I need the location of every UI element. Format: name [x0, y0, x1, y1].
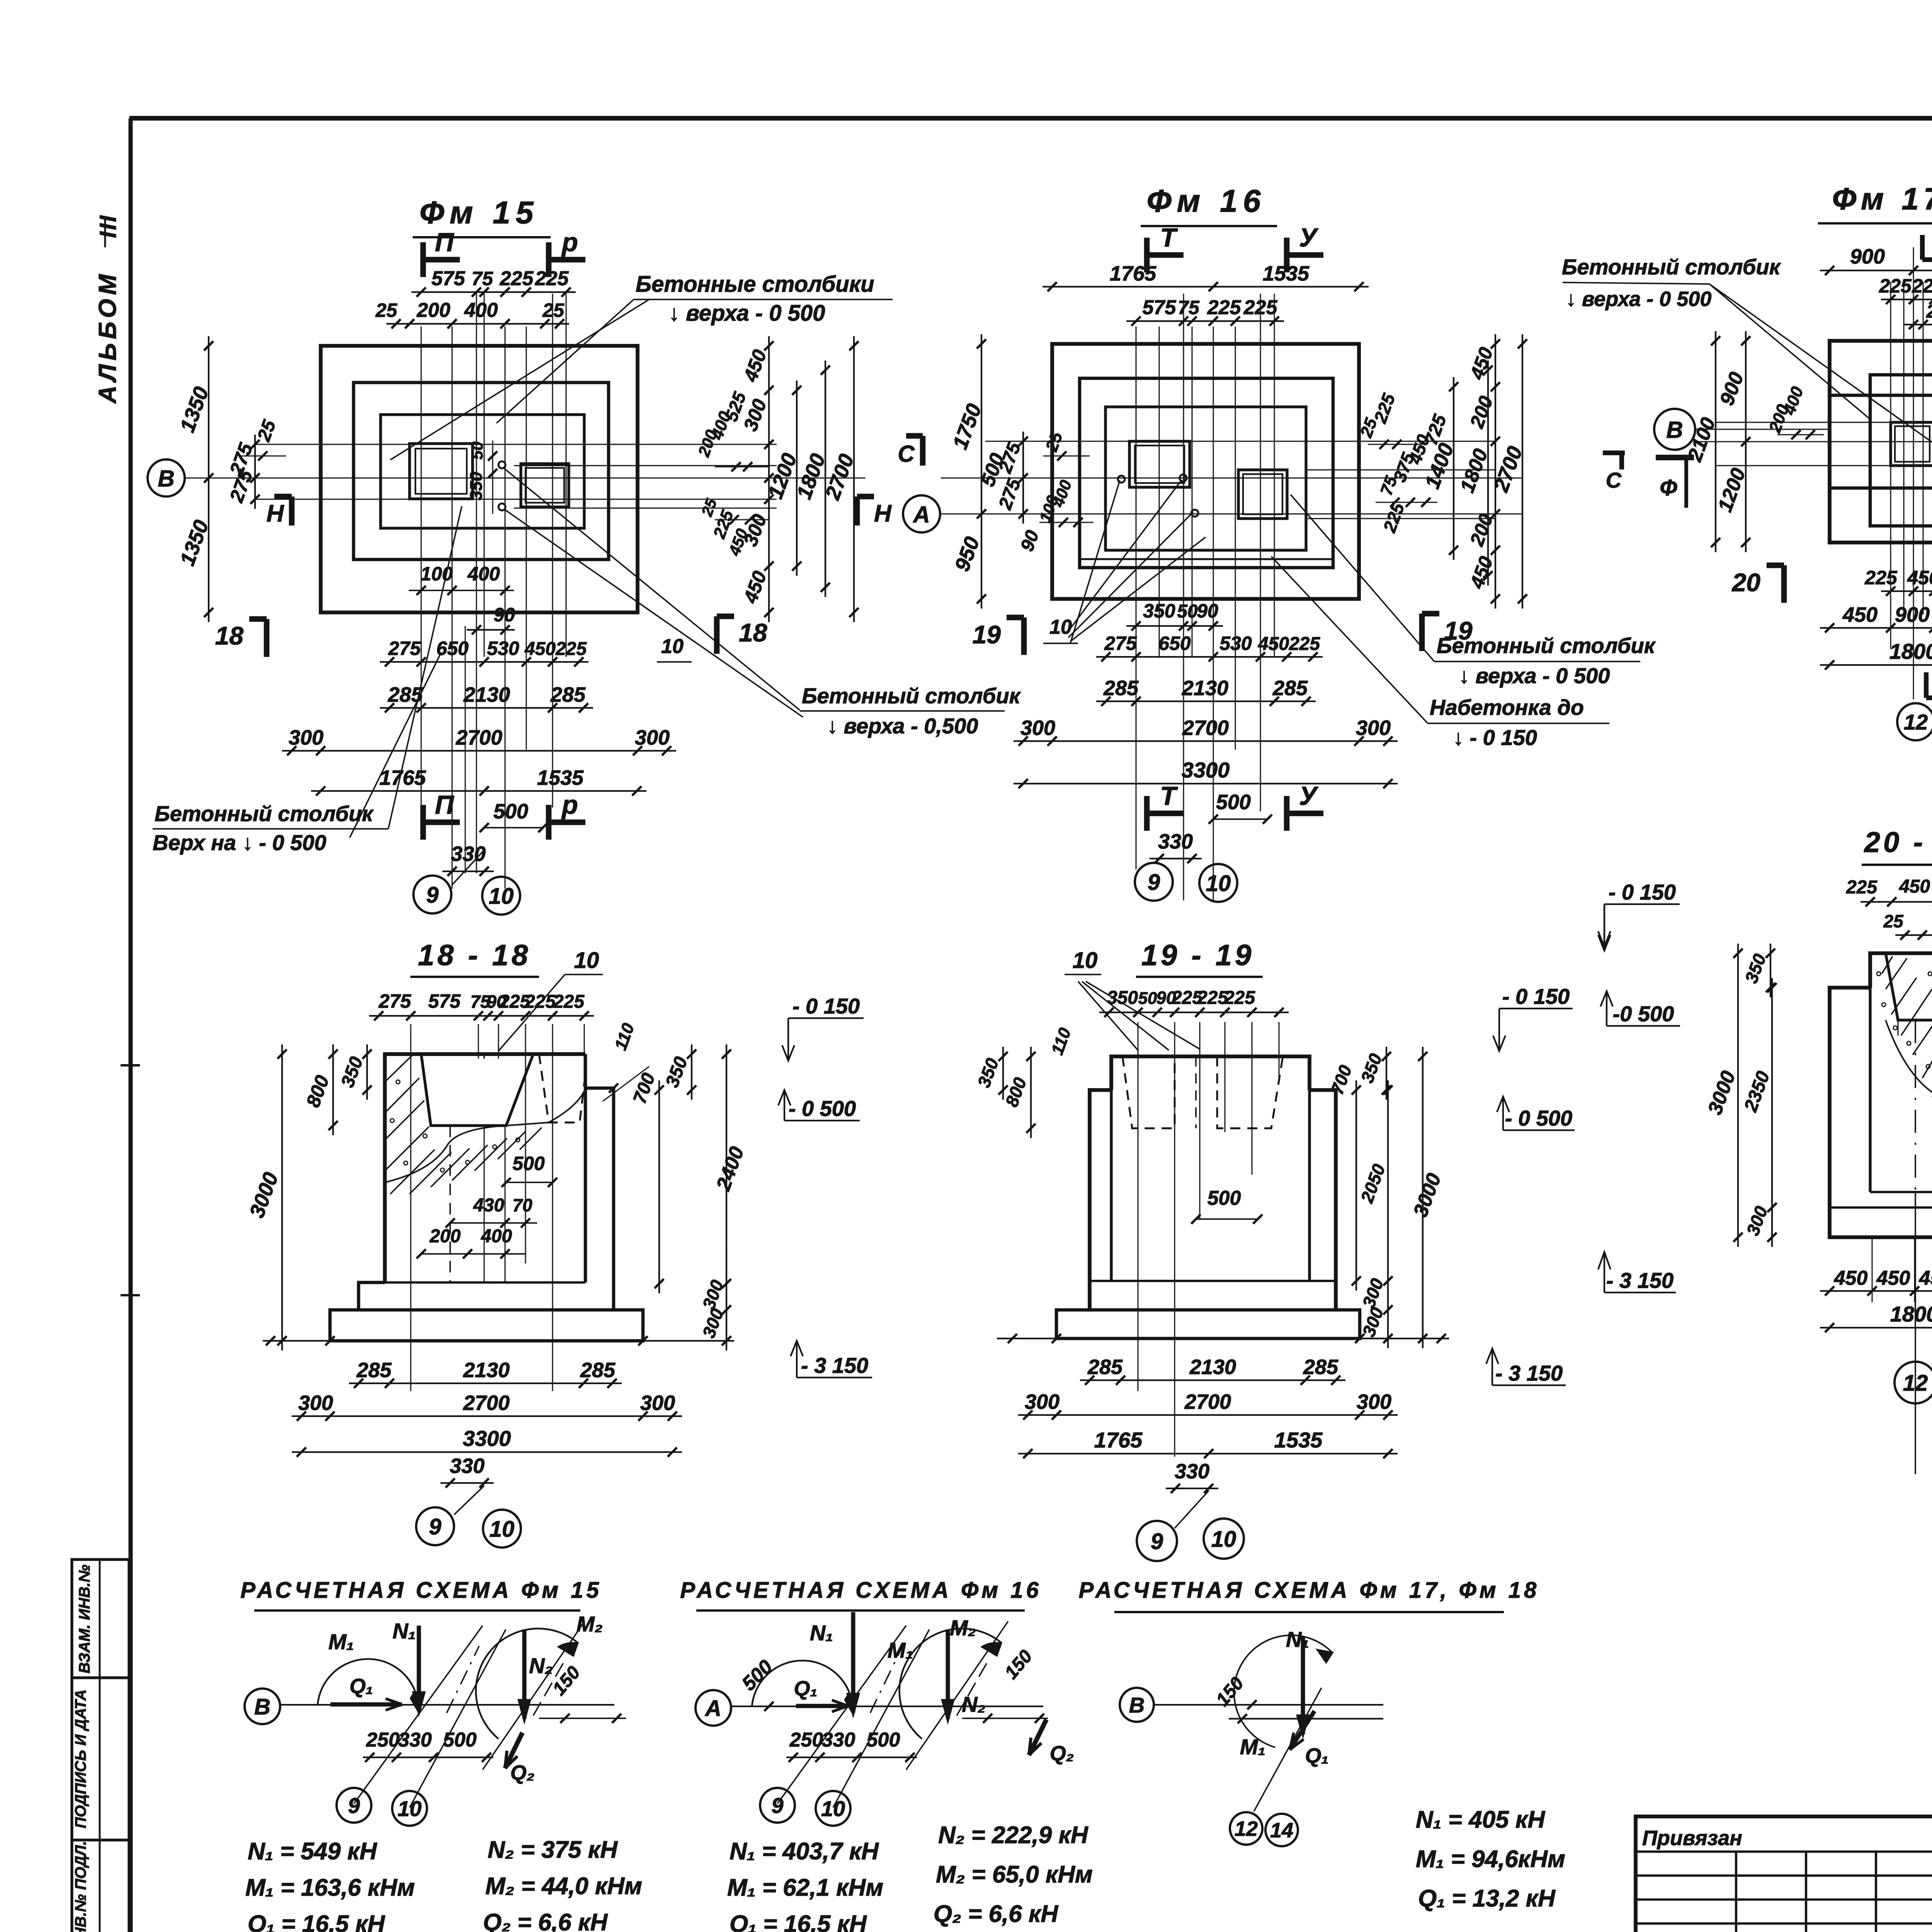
plan FM16 foundation pad outer: [1052, 344, 1359, 599]
plan FM17 column glass: [1891, 422, 1932, 466]
svg-text:10: 10: [574, 948, 599, 973]
svg-text:А: А: [912, 502, 930, 527]
svg-text:Т: Т: [1160, 781, 1178, 811]
svg-text:N₂: N₂: [529, 1653, 553, 1678]
svg-text:300: 300: [1357, 1390, 1391, 1413]
plan FM17 X mark bottom: [1924, 672, 1929, 698]
svg-text:500: 500: [443, 1729, 477, 1751]
svg-text:25: 25: [542, 299, 565, 321]
svg-text:N₁ = 549 кН: N₁ = 549 кН: [248, 1838, 377, 1865]
plan FM16 bottom dim 300 2700 300: [1014, 740, 1398, 742]
svg-text:20 - 20: 20 - 20: [1864, 826, 1932, 858]
section 19-19 pedestal body: [1111, 1056, 1310, 1090]
section 18-18 top dims: [369, 1015, 594, 1017]
section 18-18 bottom dims: [349, 1383, 622, 1384]
svg-text:50: 50: [1138, 989, 1157, 1008]
svg-text:18: 18: [215, 621, 244, 650]
svg-text:↓ верха - 0 500: ↓ верха - 0 500: [1566, 287, 1711, 311]
svg-text:Ф: Ф: [1660, 475, 1677, 500]
section 19-19 hidden cups dashed: [1122, 1056, 1175, 1128]
svg-text:В: В: [1666, 417, 1683, 443]
svg-text:9: 9: [1148, 870, 1160, 895]
section 18-18 hatch zone curve: [385, 1088, 585, 1182]
section 19-19 extension verticals: [1138, 1022, 1139, 1391]
section 19-19 step line: [1090, 1280, 1336, 1282]
svg-text:200: 200: [429, 1226, 461, 1247]
section 19-19 right dims: [1355, 1080, 1357, 1291]
svg-text:Q₂: Q₂: [1050, 1742, 1074, 1765]
svg-text:Q₁: Q₁: [794, 1677, 817, 1700]
svg-text:225: 225: [1879, 275, 1912, 297]
plan FM16 axis circle A: [903, 495, 940, 532]
svg-text:- 0 150: - 0 150: [793, 994, 860, 1018]
svg-text:275: 275: [388, 638, 421, 659]
svg-text:19: 19: [973, 620, 1001, 649]
svg-text:2700: 2700: [1182, 716, 1229, 740]
svg-text:575: 575: [432, 267, 466, 290]
section 19-19 ground line: [997, 1338, 1449, 1339]
svg-text:Фм 16: Фм 16: [1147, 184, 1266, 219]
plan FM17 cross thick lines: [1830, 394, 1932, 397]
svg-text:225: 225: [1243, 296, 1278, 319]
svg-text:50: 50: [468, 442, 486, 460]
svg-text:М₁ = 94,6кНм: М₁ = 94,6кНм: [1416, 1846, 1565, 1872]
svg-text:350: 350: [1143, 600, 1175, 622]
svg-text:1765: 1765: [1094, 1428, 1143, 1452]
scheme FM17-18 leader diagonal: [1254, 1688, 1321, 1811]
svg-text:90: 90: [1197, 600, 1218, 622]
svg-text:- 0 500: - 0 500: [1505, 1106, 1572, 1130]
svg-text:Q₁: Q₁: [1305, 1744, 1328, 1767]
plan FM16 horizontal extension lines: [985, 441, 1495, 442]
plan FM16 pedestal top: [1105, 407, 1306, 550]
svg-text:1535: 1535: [537, 766, 584, 789]
svg-text:225: 225: [555, 639, 587, 659]
plan FM16 bottom section marks T U: [1144, 796, 1150, 831]
svg-text:12: 12: [1903, 1371, 1928, 1396]
section 18-18 step1: [359, 1282, 385, 1310]
svg-text:450: 450: [1258, 634, 1289, 654]
svg-text:Q₂: Q₂: [510, 1761, 535, 1784]
svg-text:N₁: N₁: [810, 1621, 833, 1645]
plan FM15 vertical extension lines: [421, 327, 422, 808]
svg-text:2130: 2130: [463, 683, 510, 706]
section 18-18 ground line: [263, 1340, 734, 1342]
svg-text:575: 575: [428, 990, 461, 1012]
section 19-19 circles 9 10: [1137, 1521, 1177, 1561]
svg-text:650: 650: [436, 638, 469, 659]
svg-text:285: 285: [1303, 1355, 1338, 1379]
plan FM15 bottom dim row 285 2130 285: [380, 707, 593, 709]
svg-text:300: 300: [635, 726, 670, 749]
svg-text:14: 14: [1270, 1819, 1293, 1842]
svg-text:575: 575: [1143, 296, 1177, 319]
scheme FM16 axis circle A: [696, 1690, 731, 1726]
section 19-19 bottom dims: [1080, 1379, 1345, 1381]
svg-text:3300: 3300: [1182, 758, 1230, 782]
svg-text:Q₁: Q₁: [349, 1675, 373, 1698]
plan FM15 bottom dim 330: [442, 871, 494, 872]
plan FM16 top dim 575 75 225 225: [1126, 320, 1284, 322]
svg-text:М₂: М₂: [950, 1616, 976, 1640]
svg-text:М₁: М₁: [1240, 1735, 1265, 1759]
svg-text:М₁ = 62,1 кНм: М₁ = 62,1 кНм: [727, 1874, 883, 1901]
section 20-20 left dims: [1770, 944, 1771, 997]
scheme FM16 axis diagonals: [777, 1626, 906, 1804]
svg-text:75: 75: [471, 268, 493, 289]
plan FM16 column glass right: [1238, 470, 1287, 519]
plan FM15 top dim row 25 200 400 25: [386, 323, 569, 325]
plan FM17 left dims: [1745, 331, 1747, 552]
svg-text:200: 200: [417, 299, 451, 321]
svg-text:У: У: [1299, 223, 1319, 252]
plan FM15 foundation pad outer: [321, 346, 638, 612]
svg-text:2130: 2130: [1189, 1355, 1236, 1379]
plan FM15 pedestal top: [381, 415, 584, 528]
svg-text:10: 10: [398, 1796, 422, 1821]
svg-text:Q₁ = 16,5 кН: Q₁ = 16,5 кН: [730, 1911, 867, 1932]
plan FM17 extension lines: [1890, 282, 1891, 649]
plan FM16 bottom dim 330: [1150, 858, 1202, 859]
section 19-19 collar ledges: [1090, 1090, 1111, 1310]
svg-text:450: 450: [1919, 1267, 1932, 1289]
svg-text:430: 430: [473, 1195, 504, 1216]
svg-text:2130: 2130: [463, 1359, 510, 1382]
svg-text:25: 25: [375, 299, 398, 321]
svg-text:275: 275: [1104, 633, 1137, 654]
svg-text:Q₁ = 13,2 кН: Q₁ = 13,2 кН: [1418, 1885, 1556, 1912]
svg-text:330: 330: [822, 1729, 855, 1751]
section 20-20 hatch + dots: [1886, 958, 1907, 989]
svg-text:Бетонный столбик: Бетонный столбик: [802, 684, 1021, 708]
svg-text:1765: 1765: [1110, 262, 1156, 285]
svg-text:1535: 1535: [1263, 262, 1310, 285]
plan FM16 bottom dim 285 2130 285: [1096, 701, 1316, 702]
svg-text:450: 450: [1899, 876, 1930, 897]
svg-text:1765: 1765: [379, 766, 426, 789]
svg-text:ВЗАМ. ИНВ.№: ВЗАМ. ИНВ.№: [76, 1565, 93, 1673]
svg-text:285: 285: [356, 1359, 392, 1382]
svg-text:- 0 150: - 0 150: [1609, 880, 1676, 904]
svg-text:М₁: М₁: [328, 1629, 354, 1654]
plan FM16 middle step: [1080, 378, 1333, 568]
svg-text:Фм 17: Фм 17: [1832, 182, 1932, 216]
svg-text:400: 400: [464, 299, 498, 321]
svg-text:650: 650: [1158, 633, 1191, 654]
plan FM17 top dims: [1820, 270, 1932, 271]
svg-text:450: 450: [1834, 1267, 1868, 1289]
svg-text:70: 70: [512, 1195, 532, 1215]
svg-text:↓ - 0 150: ↓ - 0 150: [1453, 725, 1537, 750]
section 20-20 bottom dims: [1820, 1290, 1932, 1292]
plan FM15 right dim 1200 1800 2700: [796, 381, 798, 576]
scheme FM15 dim 250 330 500: [363, 1757, 493, 1758]
svg-text:225: 225: [553, 992, 585, 1012]
svg-text:2700: 2700: [1184, 1390, 1231, 1413]
plan FM16 inner horizontal line (nabetonka): [1080, 558, 1333, 560]
svg-text:- 3 150: - 3 150: [801, 1353, 868, 1378]
svg-text:↓ верха - 0,500: ↓ верха - 0,500: [827, 714, 978, 738]
svg-text:П: П: [435, 790, 455, 820]
svg-text:10: 10: [821, 1796, 845, 1821]
svg-text:С: С: [898, 441, 915, 467]
plan FM16 vertical extension lines: [1136, 327, 1137, 869]
plan FM15 left dims 275 25: [254, 435, 256, 509]
svg-text:225: 225: [1864, 567, 1898, 588]
plan FM16 19 section marks: [1021, 617, 1027, 655]
svg-text:225: 225: [1289, 634, 1320, 654]
svg-text:285: 285: [1272, 677, 1308, 700]
svg-text:9: 9: [771, 1793, 783, 1818]
svg-text:9: 9: [429, 1514, 441, 1539]
svg-text:р: р: [561, 790, 578, 820]
plan FM15 concrete post dots: [498, 461, 505, 468]
svg-text:П: П: [435, 228, 455, 257]
svg-text:12: 12: [1235, 1817, 1258, 1840]
svg-text:Q₂ = 6,6 кН: Q₂ = 6,6 кН: [483, 1909, 608, 1932]
plan FM15 bottom dim row 300 2700 300: [282, 750, 676, 752]
plan FM16 leader fan from 10: [1066, 480, 1182, 634]
left bottom attribute strip: [72, 1560, 129, 1932]
svg-text:↓ верха - 0 500: ↓ верха - 0 500: [668, 301, 825, 326]
svg-text:530: 530: [1219, 633, 1252, 654]
svg-text:Привязан: Привязан: [1642, 1827, 1742, 1850]
svg-text:25: 25: [1926, 301, 1932, 322]
svg-text:90: 90: [493, 604, 515, 626]
svg-text:500: 500: [867, 1729, 900, 1751]
svg-text:N₁ = 405 кН: N₁ = 405 кН: [1416, 1806, 1545, 1833]
svg-text:400: 400: [467, 563, 500, 585]
svg-text:330: 330: [398, 1729, 432, 1751]
scheme FM17-18 arc: [1234, 1635, 1332, 1747]
svg-text:Q₁ = 16,5 кН: Q₁ = 16,5 кН: [248, 1911, 385, 1932]
svg-text:- 0 150: - 0 150: [1502, 984, 1570, 1009]
svg-text:350: 350: [467, 472, 486, 500]
plan FM15 right rotated dim cluster: [768, 336, 770, 622]
scheme FM17-18 circles 12 14: [1230, 1812, 1262, 1845]
svg-text:р: р: [561, 228, 578, 257]
section 18-18 base slab: [330, 1310, 643, 1341]
svg-text:450: 450: [1842, 603, 1878, 626]
plan FM15 left dim 1350 1350: [208, 336, 209, 622]
svg-text:285: 285: [1103, 677, 1139, 700]
svg-text:ИНВ.№ ПОДЛ.: ИНВ.№ ПОДЛ.: [72, 1841, 89, 1932]
plan FM15 column glass left: [410, 444, 473, 499]
plan FM15 bottom section marks P R: [420, 805, 426, 840]
section 20-20 top dims: [1861, 901, 1932, 903]
section 18-18 inner verticals: [449, 1126, 451, 1284]
svg-text:285: 285: [1087, 1355, 1123, 1379]
svg-text:1535: 1535: [1274, 1428, 1323, 1452]
plan FM15 axis circles 9 10: [413, 876, 451, 913]
scheme FM15 N2 arrow: [522, 1629, 527, 1719]
svg-text:Бетонные столбики: Бетонные столбики: [636, 272, 874, 297]
svg-text:300: 300: [1356, 716, 1391, 740]
svg-text:РАСЧЕТНАЯ СХЕМА Фм 17, Фм 18: РАСЧЕТНАЯ СХЕМА Фм 17, Фм 18: [1079, 1578, 1540, 1603]
svg-text:330: 330: [1158, 830, 1193, 853]
scheme FM16 N1 arrow: [851, 1612, 855, 1713]
svg-text:АЛЬБОМ: АЛЬБОМ: [94, 270, 121, 404]
svg-text:500: 500: [512, 1153, 545, 1174]
svg-text:450: 450: [524, 639, 556, 659]
section 20-20 center axis dashed: [1915, 1020, 1916, 1192]
svg-text:20: 20: [1731, 568, 1761, 597]
svg-text:3300: 3300: [463, 1426, 511, 1451]
section 20-20 outer walls: [1830, 988, 1932, 1237]
svg-text:500: 500: [1207, 1187, 1241, 1209]
plan FM16 axis circles 9 10: [1135, 863, 1173, 901]
page frame: [129, 116, 1932, 121]
svg-text:300: 300: [298, 1391, 333, 1415]
svg-text:19 - 19: 19 - 19: [1141, 939, 1255, 972]
svg-text:250: 250: [789, 1729, 823, 1751]
svg-text:10: 10: [1206, 871, 1231, 896]
svg-text:А: А: [704, 1696, 721, 1721]
svg-text:Набетонка до: Набетонка до: [1430, 695, 1584, 719]
plan FM15 18 section marks: [264, 619, 270, 657]
svg-text:225: 225: [535, 267, 569, 290]
svg-text:450: 450: [1876, 1267, 1910, 1289]
svg-text:10: 10: [1211, 1527, 1236, 1552]
section 20-20 circle 12: [1895, 1362, 1932, 1403]
svg-text:450: 450: [1907, 567, 1932, 588]
section 20-20 extension verticals: [1872, 1236, 1873, 1302]
plan FM15 column glass right: [521, 464, 569, 507]
plan FM15 axis circle B: [148, 459, 185, 497]
svg-text:Бетонный столбик: Бетонный столбик: [155, 801, 374, 826]
scheme FM16 dim 250 330 500: [786, 1757, 917, 1758]
svg-text:10: 10: [490, 1517, 515, 1542]
section 20-20 pedestal walls down: [1869, 988, 1871, 1192]
scheme FM16 circles 9 10: [760, 1788, 795, 1823]
scheme FM15 M2 arc: [476, 1629, 578, 1739]
section 18-18 circles 9 10: [416, 1507, 454, 1545]
plan FM16 bottom dim 3300: [1014, 783, 1398, 784]
plan FM15 top dim row 575 75 225 225: [412, 291, 576, 293]
svg-text:330: 330: [450, 1454, 485, 1478]
svg-text:N₂: N₂: [962, 1692, 986, 1716]
plan FM17 bottom dims: [1881, 590, 1932, 592]
plan FM15 bottom dim 90: [467, 629, 515, 631]
scheme FM16 M1 arc: [752, 1660, 849, 1706]
svg-text:Верх на ↓ - 0 500: Верх на ↓ - 0 500: [153, 830, 327, 855]
scheme FM15 axis circle B: [245, 1689, 280, 1724]
svg-text:N₁ = 403,7 кН: N₁ = 403,7 кН: [730, 1838, 879, 1865]
svg-text:25: 25: [1883, 911, 1904, 931]
svg-text:300: 300: [1025, 1390, 1060, 1413]
svg-text:-0 500: -0 500: [1613, 1002, 1674, 1026]
fold ticks on left border: [121, 1064, 140, 1066]
svg-text:Н: Н: [267, 500, 284, 527]
plan FM15 horizontal extension lines: [255, 444, 777, 445]
scheme FM15 circles 9 10: [337, 1788, 371, 1823]
svg-text:900: 900: [1850, 245, 1885, 268]
svg-text:N₂ = 222,9 кН: N₂ = 222,9 кН: [938, 1822, 1088, 1849]
plan FM17 pad outer square: [1830, 341, 1932, 543]
svg-text:12: 12: [1904, 710, 1928, 734]
svg-text:В: В: [254, 1694, 270, 1719]
svg-text:N₁: N₁: [1286, 1627, 1309, 1651]
svg-text:М₁ = 163,6 кНм: М₁ = 163,6 кНм: [245, 1874, 415, 1901]
svg-text:N₁: N₁: [393, 1619, 416, 1643]
svg-text:225: 225: [1207, 296, 1242, 319]
section 20-20 slab line: [1830, 1206, 1932, 1209]
svg-text:225: 225: [500, 267, 534, 290]
svg-text:530: 530: [487, 638, 519, 659]
svg-text:10: 10: [1073, 948, 1098, 973]
section 18-18 body outline: [385, 1054, 585, 1282]
plan FM16 bottom dim 350 50 90: [1126, 625, 1223, 627]
section 20-20 pedestal top part: [1870, 953, 1932, 988]
svg-text:М₂ = 65,0 кНм: М₂ = 65,0 кНм: [936, 1861, 1093, 1888]
section 19-19 left dims: [1002, 1047, 1004, 1100]
svg-text:М₂: М₂: [577, 1612, 603, 1636]
svg-text:1800: 1800: [1889, 639, 1932, 663]
svg-text:Q₂ = 6,6 кН: Q₂ = 6,6 кН: [934, 1901, 1058, 1927]
plan FM16 right dims 200 1400 200 etc: [1495, 334, 1496, 609]
svg-text:В: В: [1129, 1693, 1145, 1717]
svg-text:ПОДПИСЬ И ДАТА: ПОДПИСЬ И ДАТА: [72, 1689, 89, 1828]
svg-text:В: В: [158, 466, 174, 492]
scheme FM15 N1 force arrow: [417, 1626, 421, 1711]
plan FM16 concrete post dots: [1118, 476, 1125, 483]
svg-text:III: III: [95, 214, 121, 238]
privyazan table: [1636, 1816, 1932, 1932]
plan FM15 bottom dim row 1765 1535: [311, 790, 646, 792]
section 18-18 cup opening: [421, 1054, 533, 1126]
section 18-18 hatching: [385, 1055, 413, 1082]
scheme FM16 M2 arc: [900, 1629, 1002, 1739]
svg-text:300: 300: [640, 1391, 675, 1415]
svg-text:↓ верха - 0 500: ↓ верха - 0 500: [1459, 663, 1610, 688]
plan FM16 C section mark left: [920, 436, 926, 466]
plan FM17 B axis stub: [1695, 429, 1830, 430]
svg-text:400: 400: [481, 1226, 512, 1247]
svg-text:350: 350: [1107, 988, 1138, 1008]
svg-text:9: 9: [348, 1793, 360, 1818]
section 19-19 top dims: [1099, 1012, 1289, 1013]
section 18-18 hidden cup dashed: [539, 1054, 585, 1122]
scheme FM16 N2 arrow: [946, 1629, 950, 1719]
svg-text:900: 900: [1895, 603, 1930, 626]
svg-text:Н: Н: [874, 500, 892, 527]
plan FM17 inner slab rect: [1870, 375, 1932, 526]
svg-text:Фм 15: Фм 15: [420, 195, 539, 230]
svg-text:Т: Т: [1160, 223, 1178, 252]
svg-text:250: 250: [366, 1729, 400, 1751]
svg-text:9: 9: [426, 883, 439, 908]
plan FM17 X mark top: [1920, 235, 1925, 260]
svg-text:75: 75: [1178, 297, 1200, 318]
svg-text:М₂ = 44,0 кНм: М₂ = 44,0 кНм: [485, 1873, 642, 1900]
svg-text:- 0 500: - 0 500: [789, 1096, 856, 1121]
section 18-18 extension verticals: [410, 1024, 412, 1391]
svg-text:225: 225: [1224, 988, 1255, 1008]
svg-text:9: 9: [1151, 1529, 1163, 1554]
svg-text:РАСЧЕТНАЯ СХЕМА Фм 15: РАСЧЕТНАЯ СХЕМА Фм 15: [240, 1578, 602, 1603]
plan FM16 C section mark right: [1603, 451, 1625, 455]
svg-text:10: 10: [661, 635, 684, 658]
svg-text:500: 500: [1216, 791, 1251, 814]
svg-text:Бетонный столбик: Бетонный столбик: [1437, 633, 1656, 658]
svg-text:РАСЧЕТНАЯ СХЕМА Фм 16: РАСЧЕТНАЯ СХЕМА Фм 16: [680, 1578, 1042, 1603]
svg-text:300: 300: [289, 726, 323, 749]
plan FM17 axis circle B left: [1654, 409, 1695, 450]
plan FM15 top section marks P and R: [420, 242, 426, 277]
plan FM16 left dims 500 275 275 90: [1022, 432, 1024, 524]
svg-text:225: 225: [524, 992, 556, 1012]
svg-text:500: 500: [493, 800, 528, 823]
